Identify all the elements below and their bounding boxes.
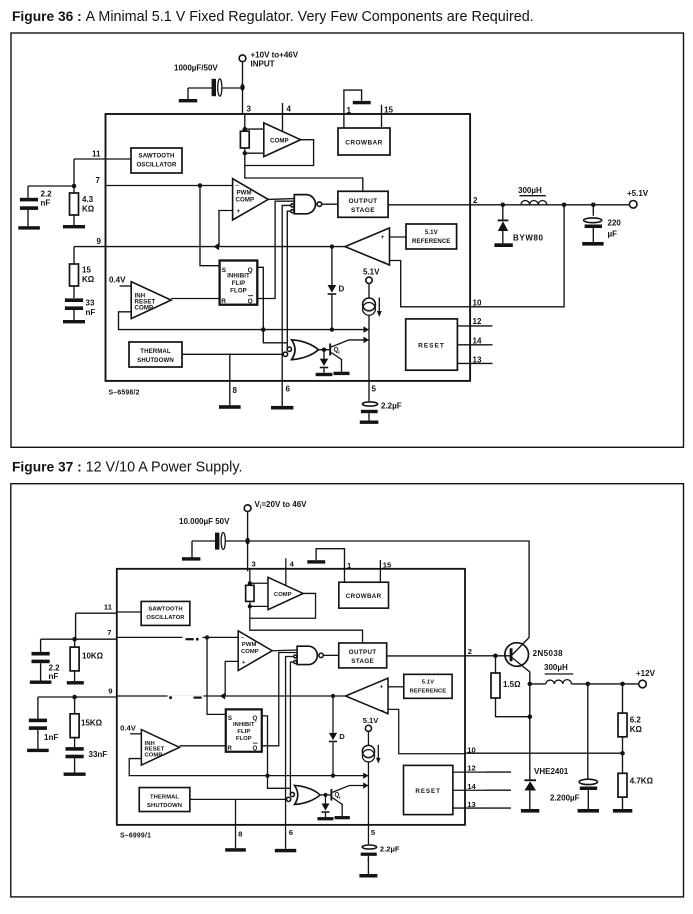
figure 36 border frame [11,33,684,447]
svg-text:4.7KΩ: 4.7KΩ [630,777,654,786]
svg-text:300µH: 300µH [518,186,542,195]
resistor 4.7 KOhm [613,753,654,812]
svg-text:2.200µF: 2.200µF [550,794,580,803]
svg-text:VHE2401: VHE2401 [534,767,569,776]
wire pin 7 37 [75,638,117,640]
svg-text:KΩ: KΩ [630,725,643,734]
node pin 7 [72,184,77,189]
wire emitter node down to diode [529,684,531,779]
svg-text:15: 15 [82,266,91,275]
svg-text:1nF: 1nF [44,733,58,742]
capacitor 1nF [27,697,58,752]
svg-text:nF: nF [86,308,96,317]
svg-text:S–6598/2: S–6598/2 [109,390,140,397]
node 1.5ohm to emitter line [528,714,533,719]
pin 1 tie bar [344,90,371,116]
svg-text:nF: nF [41,199,51,208]
node BYW80 [501,203,506,208]
dash gaps pin7 line [183,637,203,642]
resistor 15 KOhm [70,247,95,298]
wire pin 9 37 [38,696,117,698]
diode VHE2401 [521,767,569,813]
inductor 300uH [518,186,547,205]
svg-text:33: 33 [86,299,95,308]
input terminal +10V to +46V [239,51,299,115]
resistor 6.2 KOhm [618,684,642,753]
FIG37 [11,460,684,897]
svg-text:+12V: +12V [636,669,656,678]
input terminal Vi [244,500,307,571]
wire pin 11 to pin 7 node [74,159,106,186]
figure 37 border frame [11,484,684,897]
svg-text:nF: nF [49,672,59,681]
svg-text:15KΩ: 15KΩ [81,719,103,728]
diode BYW80 [494,205,543,247]
svg-text:INPUT: INPUT [251,60,275,69]
capacitor 220uF [582,205,621,246]
wire feedback to pin 10 [470,205,564,307]
resistor 4.3 KOhm [63,186,95,228]
wire pin 10 to divider [465,752,623,754]
svg-text:S–6999/1: S–6999/1 [120,833,151,840]
inductor 300uH 37 [544,663,573,684]
svg-text:Figure 36 : A Minimal 5.1 V Fi: Figure 36 : A Minimal 5.1 V Fixed Regula… [12,9,534,25]
wire pin 2 to output [470,204,630,206]
svg-text:10.000µF 50V: 10.000µF 50V [179,517,230,526]
node 2200uF [586,682,591,687]
resistor 1.5 ohm [491,656,530,717]
svg-text:2.2: 2.2 [41,190,53,199]
node 220uF [591,203,596,208]
node feedback [562,203,567,208]
node divider mid [620,751,625,756]
transistor 2N5038 [505,638,563,684]
softstart cap ground relocation 37 [358,858,380,878]
FIG36 [11,9,684,447]
wire pin 9 external [74,246,106,248]
capacitor 2200uF [550,684,599,813]
node 1.5 ohm branch [493,654,498,659]
node emitter junction [528,682,533,687]
svg-text:300µH: 300µH [544,663,568,672]
wire input rail to transistor collector [248,541,529,638]
svg-text:Figure 37 : 12 V/10 A Power Su: Figure 37 : 12 V/10 A Power Supply. [12,460,242,476]
svg-text:1.5Ω: 1.5Ω [503,680,521,689]
pin 13 ext 37 [486,807,511,809]
node input 37 [245,538,249,545]
capacitor 10.000uF 50V [179,517,248,561]
svg-text:KΩ: KΩ [82,275,95,284]
capacitor 2.2nF [18,186,74,230]
svg-text:BYW80: BYW80 [513,234,544,243]
svg-text:+10V to+46V: +10V to+46V [251,51,299,60]
capacitor 2.2nF 37 [30,639,75,684]
svg-text:2N5038: 2N5038 [533,649,564,658]
output terminal +12V [636,669,656,688]
svg-text:1000µF/50V: 1000µF/50V [174,64,218,73]
node input [240,84,244,91]
svg-text:220: 220 [608,219,622,228]
pin 14 ext 37 [486,789,511,791]
svg-text:µF: µF [608,230,618,239]
svg-text:6.2: 6.2 [630,716,642,725]
wire pin 2 to transistor base [465,655,511,657]
resistor 10 KOhm [67,639,104,684]
svg-text:Vi=20V to 46V: Vi=20V to 46V [255,500,308,511]
capacitor 33nF [63,298,95,323]
wire pin 11 37 [76,613,117,639]
output terminal +5.1V [627,189,649,208]
pin 1 tie bar 37 [307,549,344,572]
node pin 7 37 [72,637,77,642]
capacitor 1000uF/50V [174,64,243,103]
svg-text:+5.1V: +5.1V [627,189,649,198]
wire inductor to +12V [530,683,639,685]
node divider top [620,682,625,687]
dash gaps pin9 line [168,695,204,700]
pin 12 ext 37 [486,771,511,773]
svg-text:KΩ: KΩ [82,205,95,214]
svg-text:4.3: 4.3 [82,195,94,204]
node pin 9 37 [72,695,77,700]
resistor 15 KOhm 37 [70,697,103,747]
svg-text:33nF: 33nF [89,750,108,759]
svg-text:10KΩ: 10KΩ [82,652,104,661]
capacitor 33nF 37 [64,747,108,776]
